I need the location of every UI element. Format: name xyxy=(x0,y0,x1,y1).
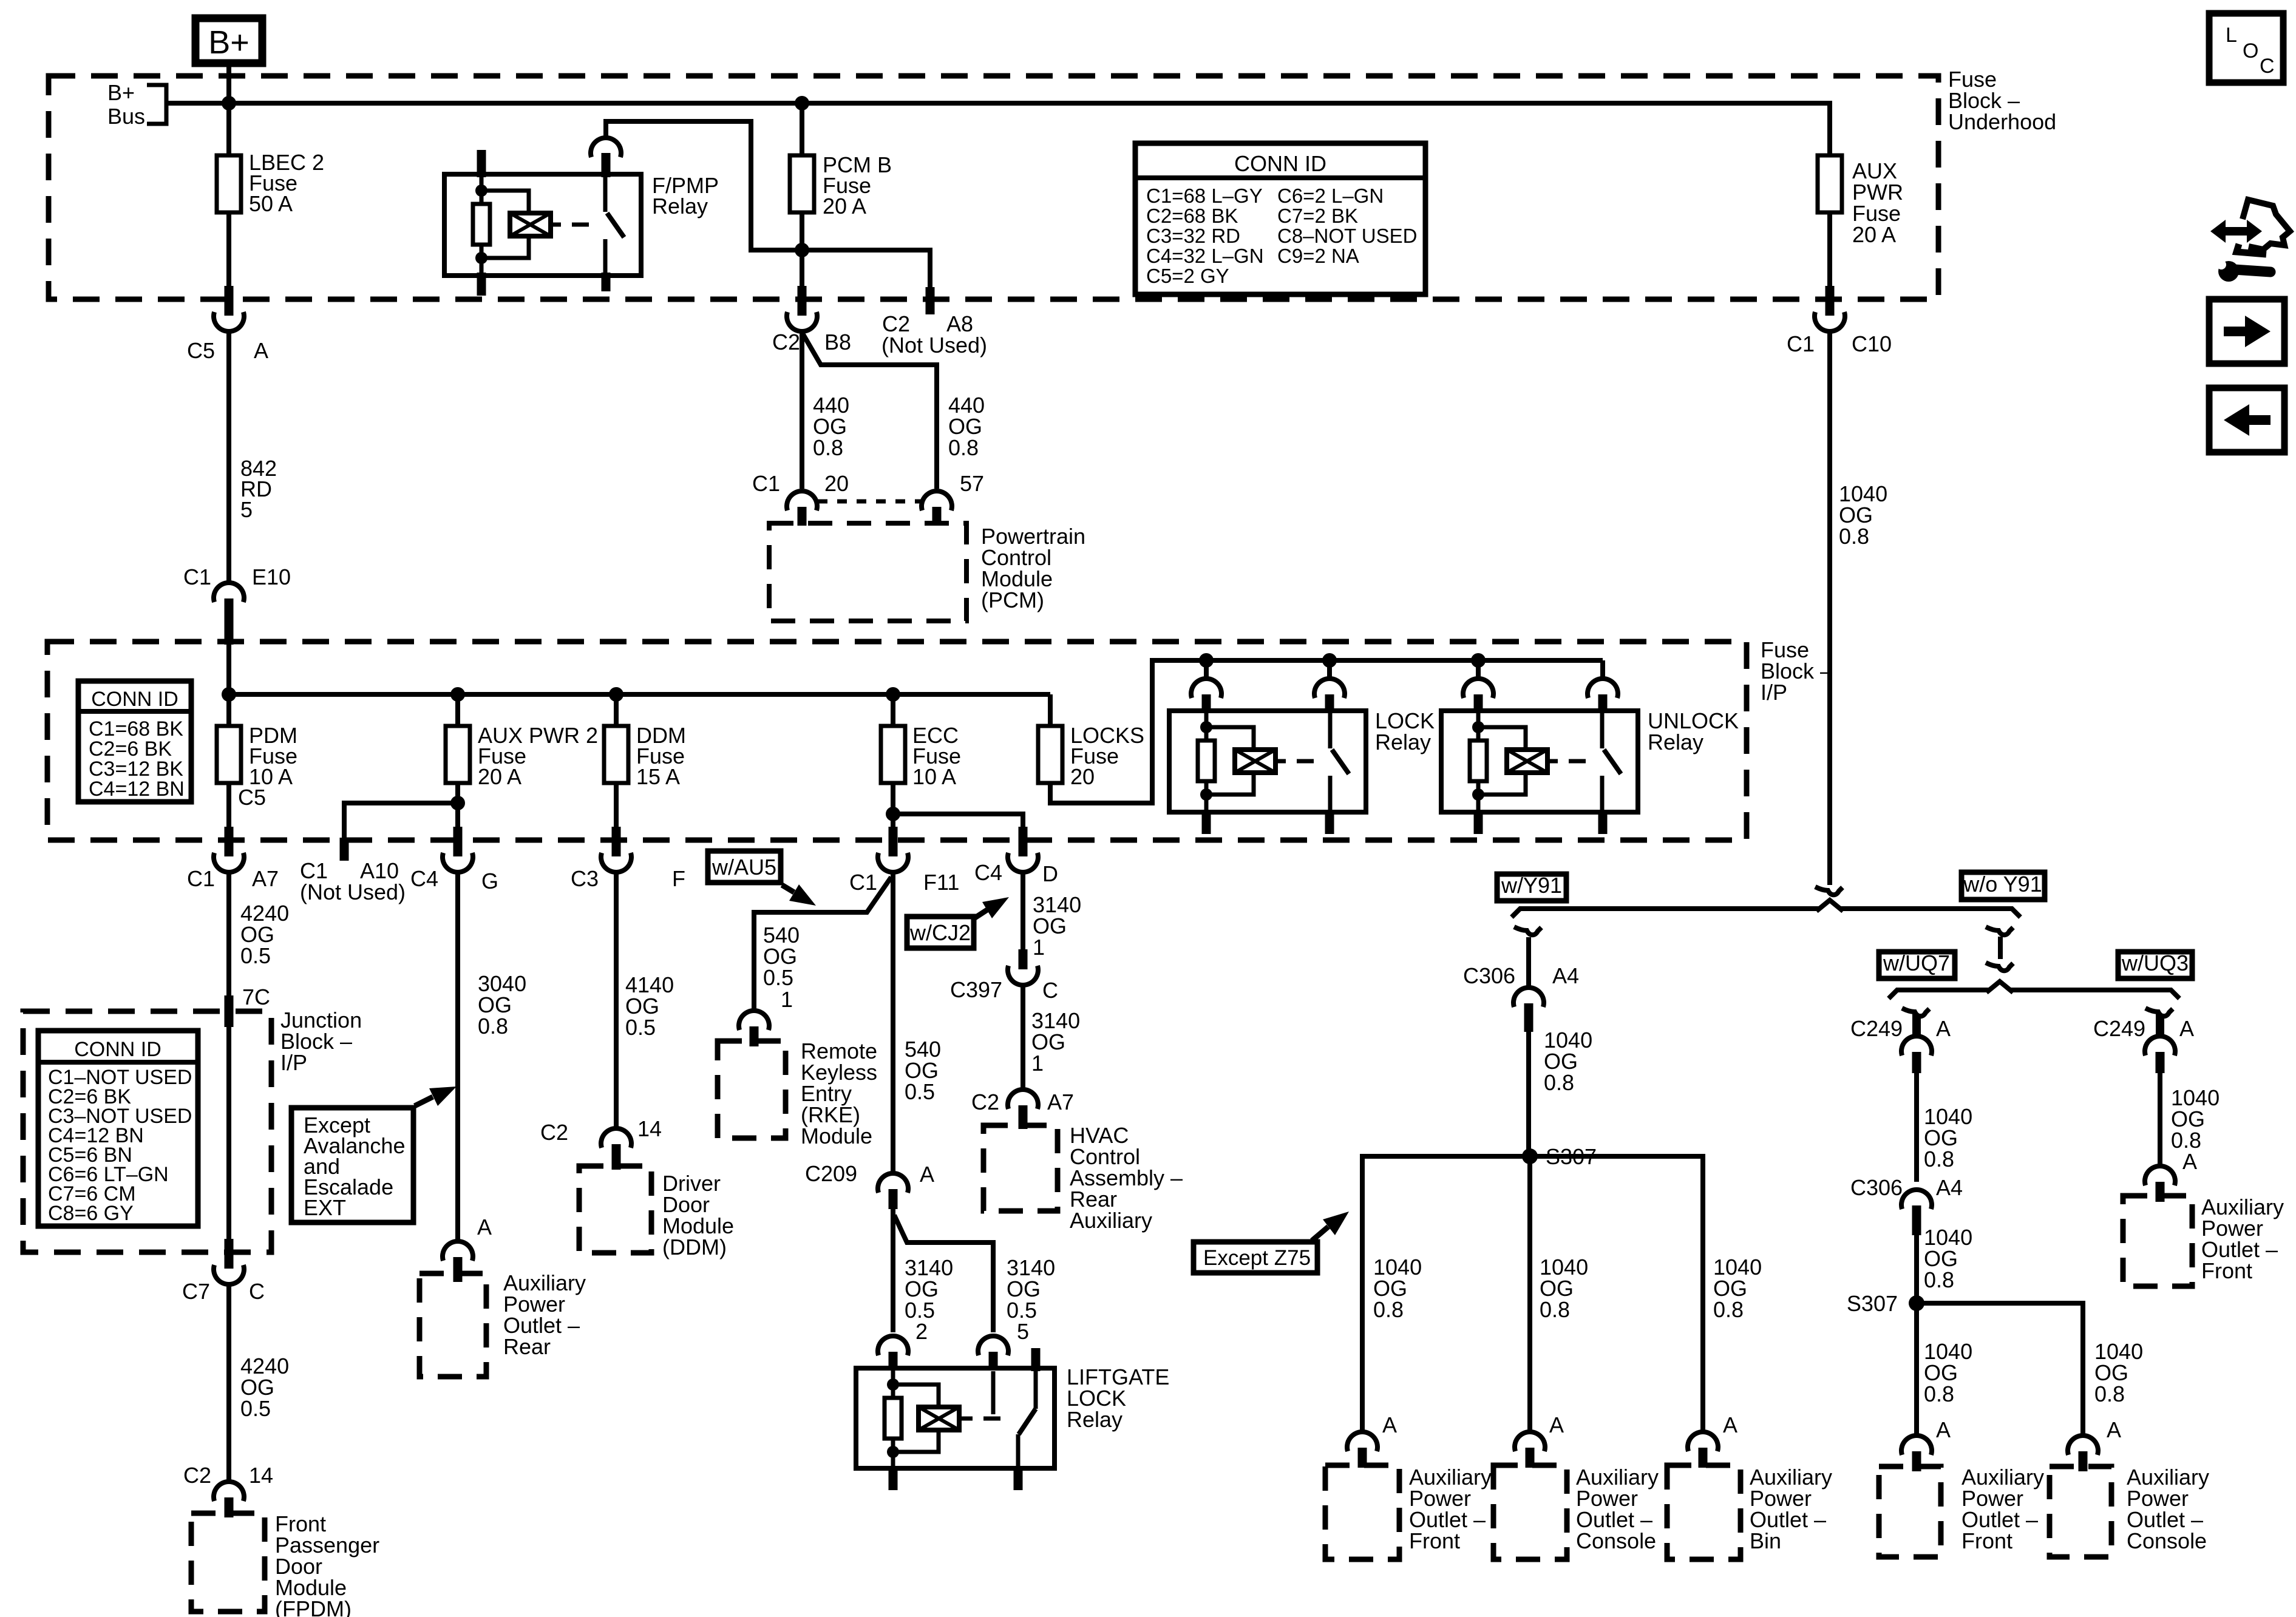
wire 3040 OG 0.8 xyxy=(458,874,526,1239)
wire PDM fuse to A7 exit xyxy=(226,783,231,829)
svg-text:Except Z75: Except Z75 xyxy=(1203,1246,1311,1270)
wire 4140 OG 0.5 xyxy=(616,874,674,1127)
connector at F/PMP relay switch pin xyxy=(591,138,621,157)
junction dot AUXPWR2 xyxy=(450,687,465,702)
label Powertrain Control Module PCM xyxy=(981,524,1085,612)
relay LOCK xyxy=(1169,708,1435,834)
wire PDM drop xyxy=(226,694,231,726)
svg-text:1: 1 xyxy=(1031,1051,1044,1076)
svg-text:C2=68 BK: C2=68 BK xyxy=(1146,205,1238,227)
module Auxiliary Power Outlet Bin dashed box xyxy=(1667,1465,1741,1559)
svg-text:C: C xyxy=(2260,55,2275,78)
connector A at front outlet xyxy=(1347,1412,1397,1468)
svg-text:0.8: 0.8 xyxy=(813,435,843,460)
svg-text:C1: C1 xyxy=(187,866,215,891)
svg-text:Console: Console xyxy=(1576,1528,1656,1553)
svg-text:A: A xyxy=(1549,1412,1564,1437)
connector A at rear outlet xyxy=(443,1215,492,1282)
svg-text:w/UQ7: w/UQ7 xyxy=(1883,951,1950,975)
wire AUXPWR2 drop xyxy=(455,694,460,726)
fuse block underhood dashed enclosure xyxy=(49,76,1938,299)
svg-text:C397: C397 xyxy=(950,977,1002,1002)
svg-text:(Not Used): (Not Used) xyxy=(300,880,406,904)
svg-text:A: A xyxy=(1936,1016,1951,1041)
svg-text:14: 14 xyxy=(637,1116,662,1141)
option break on main feed xyxy=(1815,887,1843,895)
svg-text:C209: C209 xyxy=(805,1161,857,1186)
junction dot at PCM B drop xyxy=(795,96,809,110)
svg-text:w/UQ3: w/UQ3 xyxy=(2121,951,2189,975)
svg-text:C9=2 NA: C9=2 NA xyxy=(1277,245,1359,267)
svg-text:20 A: 20 A xyxy=(478,764,521,789)
svg-text:C1: C1 xyxy=(752,471,780,496)
wire DDM drop xyxy=(614,694,619,726)
connector A at UQ3 front outlet xyxy=(2145,1166,2175,1202)
connector C4-G exit xyxy=(410,827,498,893)
svg-text:5: 5 xyxy=(240,497,253,522)
svg-text:w/Y91: w/Y91 xyxy=(1501,873,1562,898)
svg-text:0.5: 0.5 xyxy=(625,1015,656,1040)
wire E10 to IP bus xyxy=(226,637,231,694)
wire 4240 OG 0.5 upper xyxy=(229,874,289,1009)
svg-text:14: 14 xyxy=(249,1463,273,1488)
svg-text:C8–NOT USED: C8–NOT USED xyxy=(1277,225,1417,247)
wire unlock switch drop xyxy=(1600,660,1605,677)
wire AUX PWR fuse to C1 connector xyxy=(1827,212,1832,288)
svg-text:C306: C306 xyxy=(1463,963,1515,988)
junction dot PDM xyxy=(222,687,236,702)
svg-text:C5: C5 xyxy=(238,785,266,810)
connector at unlock relay coil xyxy=(1463,679,1493,713)
svg-text:C7=2 BK: C7=2 BK xyxy=(1277,205,1358,227)
wire AUX PWR fuse drop xyxy=(1827,101,1832,155)
svg-text:2: 2 xyxy=(915,1319,928,1344)
svg-text:0.8: 0.8 xyxy=(1540,1297,1570,1322)
svg-text:C10: C10 xyxy=(1852,331,1892,356)
wire A8 branch xyxy=(802,250,930,314)
connector C5-A at fuse block exit xyxy=(187,286,268,363)
splice S307 w UQ7 xyxy=(1847,1291,1924,1316)
svg-text:Rear: Rear xyxy=(503,1334,551,1359)
wire 1040 OG 0.8 UQ3 xyxy=(2160,1073,2220,1174)
note w AU5 xyxy=(708,851,816,906)
svg-text:20: 20 xyxy=(1070,764,1095,789)
svg-text:0.8: 0.8 xyxy=(478,1014,508,1039)
connector 1 at RKE module xyxy=(739,1011,769,1046)
svg-text:C2: C2 xyxy=(971,1090,999,1114)
junction dot lock coil feed xyxy=(1199,653,1214,668)
wire LOCKS drop xyxy=(1048,694,1053,726)
svg-text:C3: C3 xyxy=(571,866,599,891)
svg-text:w/AU5: w/AU5 xyxy=(712,855,776,880)
svg-text:(PCM): (PCM) xyxy=(981,588,1044,612)
svg-text:Relay: Relay xyxy=(1375,730,1431,754)
svg-text:E10: E10 xyxy=(252,564,291,589)
svg-text:0.5: 0.5 xyxy=(240,943,271,968)
label UQ7 Auxiliary Power Outlet Console xyxy=(2127,1465,2209,1553)
svg-text:Relay: Relay xyxy=(1648,730,1703,754)
svg-text:CONN ID: CONN ID xyxy=(91,688,178,711)
note Except Z75 xyxy=(1194,1212,1349,1273)
wire to C306 xyxy=(1526,937,1531,986)
svg-text:A: A xyxy=(254,338,268,363)
svg-text:Front: Front xyxy=(1961,1528,2012,1553)
svg-text:A7: A7 xyxy=(252,866,279,891)
module PCM dashed box xyxy=(769,523,966,621)
connector 5 at liftgate relay xyxy=(978,1336,1008,1371)
fuse LOCKS 20 xyxy=(1038,723,1144,789)
wire LBEC2 fuse to C5 connector xyxy=(226,212,231,288)
svg-text:57: 57 xyxy=(960,471,984,496)
wire ECC drop xyxy=(891,694,895,726)
svg-text:1: 1 xyxy=(1033,935,1045,960)
label UQ7 Auxiliary Power Outlet Front xyxy=(1961,1465,2044,1553)
svg-text:C1: C1 xyxy=(183,564,211,589)
svg-text:0.5: 0.5 xyxy=(763,965,793,990)
relay UNLOCK xyxy=(1441,708,1739,834)
wire unlock coil drop xyxy=(1476,660,1481,677)
wire liftgate relay pin5 branch xyxy=(894,1215,1055,1344)
wire PCM B fuse drop xyxy=(800,103,804,155)
svg-text:F: F xyxy=(672,866,685,891)
junction dot at LBEC2 drop xyxy=(222,96,236,110)
svg-text:Module: Module xyxy=(801,1124,872,1148)
label C2 A8 not used xyxy=(881,311,987,358)
svg-text:Front: Front xyxy=(2201,1258,2252,1283)
svg-text:C4=12 BN: C4=12 BN xyxy=(89,778,185,801)
junction dot A10 branch xyxy=(450,796,465,810)
svg-text:A: A xyxy=(1936,1417,1951,1442)
fuse LBEC 2 50A xyxy=(217,150,324,216)
wire ECC branch to D exit xyxy=(893,814,1023,829)
table CONN ID underhood xyxy=(1135,143,1425,294)
svg-text:CONN ID: CONN ID xyxy=(1234,151,1326,176)
svg-text:0.8: 0.8 xyxy=(1544,1070,1574,1095)
splice S307 w Y91 xyxy=(1522,1144,1597,1169)
wire S307 UQ7 right branch xyxy=(1917,1303,2143,1434)
svg-text:0.8: 0.8 xyxy=(1924,1147,1954,1171)
wire S307 right branch to bin outlet xyxy=(1530,1156,1762,1430)
wire 540 OG 0.5 to C209 xyxy=(893,874,941,1171)
svg-text:C306: C306 xyxy=(1850,1175,1903,1200)
junction dot lock switch feed xyxy=(1322,653,1337,668)
icon LOC locator box xyxy=(2209,13,2283,83)
option break chain between braces xyxy=(1986,927,2013,971)
svg-text:Front: Front xyxy=(1409,1528,1460,1553)
svg-text:EXT: EXT xyxy=(304,1195,346,1220)
svg-text:C2: C2 xyxy=(772,330,800,354)
connector C249-A w UQ3 xyxy=(2093,1014,2194,1073)
wire lock coil drop xyxy=(1204,660,1209,677)
relay LIFTGATE LOCK xyxy=(856,1348,1169,1490)
option break at C306 branch xyxy=(1514,927,1541,935)
svg-text:B8: B8 xyxy=(824,330,851,354)
svg-text:10 A: 10 A xyxy=(912,764,956,789)
wire ECC fuse to F11 exit xyxy=(891,783,895,829)
wire IP bus xyxy=(229,692,1050,697)
svg-text:C: C xyxy=(1042,978,1058,1003)
connector C249-A w UQ7 xyxy=(1850,1014,1951,1073)
svg-text:1: 1 xyxy=(781,987,793,1012)
note w Y91 xyxy=(1497,873,1566,901)
svg-text:O: O xyxy=(2243,39,2258,63)
svg-text:Relay: Relay xyxy=(652,194,708,219)
wire S307 middle branch to console outlet xyxy=(1530,1156,1588,1430)
wire 1040 OG 0.8 to S307 xyxy=(1529,1028,1592,1156)
label Auxiliary Power Outlet Front xyxy=(1409,1465,1492,1553)
connector C1-20 at PCM xyxy=(752,471,849,526)
connector C2-B8 at fuse block exit xyxy=(772,286,851,354)
svg-text:B+: B+ xyxy=(208,24,250,61)
connector C1-F11 exit xyxy=(849,827,959,895)
connector C1-C10 at fuse block exit xyxy=(1787,286,1892,356)
wire 1040 OG 0.8 UQ7 upper xyxy=(1917,1073,1972,1182)
svg-text:0.8: 0.8 xyxy=(948,435,979,460)
svg-text:w/CJ2: w/CJ2 xyxy=(909,920,971,945)
icon hand with wrench xyxy=(2210,200,2290,282)
fuse ECC 10A xyxy=(881,723,961,789)
wire B+ box to LBEC2 fuse xyxy=(226,63,231,155)
svg-text:A4: A4 xyxy=(1552,963,1579,988)
svg-text:7C: 7C xyxy=(242,985,270,1009)
fuse block IP dashed enclosure xyxy=(47,642,1747,840)
svg-text:Bus: Bus xyxy=(107,104,145,129)
wire A10 branch not used xyxy=(344,803,458,861)
svg-text:C249: C249 xyxy=(2093,1016,2145,1041)
connector A at UQ7 front outlet xyxy=(1901,1417,1951,1471)
wire S307 UQ7 left drop xyxy=(1917,1303,1972,1434)
svg-text:A4: A4 xyxy=(1936,1175,1963,1200)
wire AUXPWR2 fuse to G exit xyxy=(455,783,460,829)
svg-text:A7: A7 xyxy=(1047,1090,1074,1114)
svg-text:0.8: 0.8 xyxy=(1839,524,1869,549)
connector at unlock relay switch xyxy=(1588,679,1618,713)
wire DDM fuse to F exit xyxy=(614,783,619,829)
svg-text:(DDM): (DDM) xyxy=(662,1235,727,1259)
option break at right C249 xyxy=(2145,1008,2173,1016)
svg-text:(FPDM): (FPDM) xyxy=(275,1596,352,1617)
svg-text:Bin: Bin xyxy=(1750,1528,1781,1553)
connector C7-C exit xyxy=(182,1239,265,1304)
svg-text:C6=2 L–GN: C6=2 L–GN xyxy=(1277,185,1384,207)
brace w Y91 and wo Y91 xyxy=(1512,900,2020,917)
svg-text:C2: C2 xyxy=(183,1463,211,1488)
junction block IP dashed enclosure xyxy=(23,995,271,1252)
svg-text:20 A: 20 A xyxy=(1852,222,1896,247)
connector A at bin outlet xyxy=(1688,1412,1737,1468)
wire B+ bus horizontal xyxy=(166,101,1830,106)
fuse AUX PWR 20A xyxy=(1818,155,1903,247)
note Except Avalanche and Escalade EXT xyxy=(291,1086,457,1222)
junction dot unlock coil feed xyxy=(1471,653,1486,668)
wire PCM B fuse to junction xyxy=(800,212,804,288)
option break at left C249 xyxy=(1902,1008,1929,1016)
svg-text:C7: C7 xyxy=(182,1279,210,1304)
svg-text:0.5: 0.5 xyxy=(905,1079,935,1104)
svg-text:C1: C1 xyxy=(1787,331,1815,356)
power feed B+ terminal box xyxy=(195,18,262,63)
svg-text:C5=2 GY: C5=2 GY xyxy=(1146,265,1229,287)
svg-text:L: L xyxy=(2226,24,2237,47)
icon forward arrow box xyxy=(2209,299,2284,364)
fuse PDM 10A xyxy=(217,723,297,810)
svg-text:A: A xyxy=(1382,1412,1397,1437)
connector at lock relay switch xyxy=(1314,679,1345,713)
svg-text:C2: C2 xyxy=(540,1120,568,1145)
connector C2-14 at FPDM xyxy=(183,1463,273,1517)
wire F/PMP relay to PCM B fuse output xyxy=(606,121,799,250)
svg-text:Auxiliary: Auxiliary xyxy=(1070,1208,1152,1233)
wire 3140 OG 1 upper xyxy=(1023,874,1081,960)
module UQ7 front outlet dashed box xyxy=(1879,1466,1941,1557)
svg-text:I/P: I/P xyxy=(1761,680,1787,705)
label Fuse Block IP xyxy=(1761,637,1832,705)
wire RKE branch xyxy=(754,877,891,1012)
table CONN ID IP xyxy=(78,681,191,802)
svg-text:A: A xyxy=(477,1215,492,1239)
wire 3140 OG 1 lower xyxy=(1023,987,1080,1088)
connector C306-A4 w Y91 xyxy=(1463,963,1579,1032)
fuse AUX PWR 2 20A xyxy=(446,723,598,789)
svg-text:F11: F11 xyxy=(923,870,959,895)
svg-text:C8=6 GY: C8=6 GY xyxy=(48,1202,134,1225)
brace w UQ7 and w UQ3 xyxy=(1889,981,2179,998)
svg-text:5: 5 xyxy=(1017,1319,1029,1344)
connector 2 at liftgate relay xyxy=(878,1336,908,1371)
connector C1-A7 exit xyxy=(187,827,279,891)
wire liftgate relay pin2 drop xyxy=(893,1209,953,1344)
svg-text:C: C xyxy=(249,1279,265,1304)
label Remote Keyless Entry RKE Module xyxy=(801,1039,877,1148)
svg-text:B+: B+ xyxy=(107,80,135,105)
label UQ3 Auxiliary Power Outlet Front xyxy=(2201,1195,2284,1283)
junction dot ECC split xyxy=(886,807,900,821)
svg-text:0.8: 0.8 xyxy=(1924,1267,1954,1292)
wire 440 OG 0.8 left to pin 20 xyxy=(802,333,849,489)
connector C1-E10 into IP harness xyxy=(183,564,291,645)
wire 842 RD 5 xyxy=(229,333,277,581)
connector C209-A xyxy=(805,1161,934,1209)
connector at lock relay coil xyxy=(1191,679,1221,713)
note w UQ7 xyxy=(1879,951,1955,978)
svg-text:Underhood: Underhood xyxy=(1948,109,2056,134)
svg-text:15 A: 15 A xyxy=(636,764,680,789)
note w UQ3 xyxy=(2118,951,2192,978)
svg-text:C1: C1 xyxy=(849,870,877,895)
module DDM dashed box xyxy=(579,1166,651,1253)
module Auxiliary Power Outlet Console dashed box xyxy=(1493,1465,1567,1559)
connector C4-D exit xyxy=(974,827,1058,886)
label HVAC Control Assembly Rear Auxiliary xyxy=(1070,1123,1183,1233)
module UQ3 front outlet dashed box xyxy=(2123,1196,2192,1286)
svg-text:0.8: 0.8 xyxy=(1373,1297,1404,1322)
module Auxiliary Power Outlet Front dashed box xyxy=(1325,1465,1399,1559)
wire 4240 OG 0.5 lower xyxy=(229,1286,289,1480)
connector A at console outlet xyxy=(1515,1412,1564,1468)
svg-text:A: A xyxy=(2182,1149,2197,1174)
svg-text:CONN ID: CONN ID xyxy=(74,1038,161,1061)
wire 1040 OG 0.8 UQ7 lower xyxy=(1917,1225,1972,1296)
svg-text:C5: C5 xyxy=(187,338,215,363)
svg-text:I/P: I/P xyxy=(280,1050,307,1075)
svg-text:A: A xyxy=(2179,1016,2194,1041)
junction dot DDM xyxy=(609,687,623,702)
label Front Passenger Door Module xyxy=(275,1511,379,1617)
node B+ Bus label and bracket xyxy=(107,80,166,129)
icon back arrow box xyxy=(2209,388,2284,452)
svg-text:A: A xyxy=(920,1162,934,1187)
fuse DDM 15A xyxy=(604,723,686,789)
label C1 A10 not used xyxy=(300,858,406,904)
connector A at UQ7 console outlet xyxy=(2068,1417,2121,1471)
svg-text:0.8: 0.8 xyxy=(1924,1381,1954,1406)
module HVAC dashed box xyxy=(983,1125,1058,1211)
connector 57 at PCM xyxy=(922,471,984,526)
svg-text:0.8: 0.8 xyxy=(2094,1381,2125,1406)
svg-text:A: A xyxy=(1723,1412,1737,1437)
svg-text:0.5: 0.5 xyxy=(240,1396,271,1421)
fuse PCM B 20A xyxy=(790,152,892,219)
connector C2-14 at DDM xyxy=(540,1116,662,1170)
label Fuse Block Underhood xyxy=(1948,67,2056,134)
svg-text:0.8: 0.8 xyxy=(1713,1297,1744,1322)
module RKE dashed box xyxy=(718,1041,786,1138)
wire 1040 OG 0.8 main feed xyxy=(1830,333,1887,885)
svg-text:(Not Used): (Not Used) xyxy=(881,333,987,358)
module UQ7 console outlet dashed box xyxy=(2050,1466,2111,1557)
connector C397-C inline xyxy=(950,949,1058,1003)
svg-text:C4=32 L–GN: C4=32 L–GN xyxy=(1146,245,1264,267)
svg-text:20 A: 20 A xyxy=(823,194,866,219)
svg-text:w/o Y91: w/o Y91 xyxy=(1963,872,2042,897)
svg-text:50 A: 50 A xyxy=(249,191,293,216)
connector C3-F exit xyxy=(571,827,685,891)
connector C2-A7 at HVAC xyxy=(971,1090,1074,1129)
svg-text:20: 20 xyxy=(824,471,849,496)
svg-text:Relay: Relay xyxy=(1067,1407,1123,1432)
junction dot PCM B output xyxy=(795,243,809,257)
svg-text:C4: C4 xyxy=(974,860,1002,885)
svg-text:C1=68 L–GY: C1=68 L–GY xyxy=(1146,185,1263,207)
svg-text:C3=32 RD: C3=32 RD xyxy=(1146,225,1240,247)
wire LOCKS fuse to relay feed xyxy=(1050,660,1603,803)
module FPDM dashed box xyxy=(191,1513,265,1612)
svg-text:S307: S307 xyxy=(1847,1291,1898,1316)
connector C306-A4 w UQ7 xyxy=(1850,1175,1963,1235)
table CONN ID junction block xyxy=(38,1031,198,1226)
svg-text:G: G xyxy=(481,869,498,893)
svg-text:D: D xyxy=(1042,861,1058,886)
wire S307 left branch to front outlet xyxy=(1362,1156,1530,1430)
svg-text:Console: Console xyxy=(2127,1528,2207,1553)
junction dot ECC xyxy=(886,687,900,702)
wire through junction block xyxy=(226,1026,231,1241)
module Auxiliary Power Outlet Rear dashed box xyxy=(419,1273,486,1377)
note w CJ2 xyxy=(907,897,1009,948)
label Auxiliary Power Outlet Bin xyxy=(1750,1465,1832,1553)
wire lock switch drop xyxy=(1327,660,1332,677)
svg-text:C249: C249 xyxy=(1850,1016,1903,1041)
label Junction Block IP xyxy=(280,1008,362,1075)
label Auxiliary Power Outlet Rear xyxy=(503,1270,586,1359)
label Auxiliary Power Outlet Console xyxy=(1576,1465,1659,1553)
label Driver Door Module xyxy=(662,1171,734,1259)
svg-text:A: A xyxy=(2107,1417,2121,1442)
dotted connector tie 20-57 xyxy=(818,500,921,504)
wire 440 OG 0.8 right to pin 57 xyxy=(803,334,985,489)
note wo Y91 xyxy=(1961,872,2045,900)
relay F/PMP xyxy=(444,150,719,296)
